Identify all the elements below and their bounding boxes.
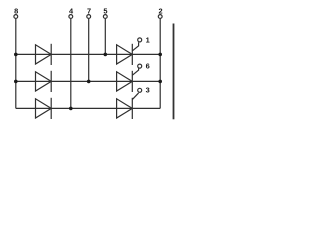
node dot: left bus / row 2 [14, 80, 18, 84]
node dot: left bus / row 1 [14, 53, 18, 57]
node dot: terminal 4 stem / row 3 [69, 107, 73, 111]
diode D3 (left, row 3) [36, 98, 52, 119]
node dot: terminal 7 stem / row 2 [87, 80, 91, 84]
wire: terminal 4 stem down to row 3 [70, 19, 72, 109]
wire: row 2 horizontal [16, 80, 160, 82]
pin 3 circle [138, 88, 142, 92]
diode D4 (right, row 1) [117, 44, 133, 65]
frame rule line (right border of drawing cell) [173, 24, 175, 120]
terminal 7 circle [87, 15, 91, 19]
wire: terminal 7 stem down to row 2 [88, 19, 90, 82]
wire: row 3 horizontal [16, 107, 160, 109]
pin 6 circle [138, 64, 142, 68]
node dot: terminal 2 stem / row 1 [158, 53, 162, 57]
pin 1 lead [132, 42, 138, 51]
terminal 2 circle [158, 15, 162, 19]
wire: terminal 5 stem down to row 1 [104, 19, 106, 55]
pin 6 lead [132, 68, 138, 75]
diode D6 (right, row 3) [117, 98, 133, 119]
wire: left DC bus from terminal 8 down to row 3 [15, 19, 17, 109]
terminal 4 circle [69, 15, 73, 19]
svg-text:1: 1 [146, 35, 150, 44]
diode D2 (left, row 2) [36, 71, 52, 92]
node dot: terminal 5 stem / row 1 [104, 53, 108, 57]
wire: row 1 horizontal [16, 53, 160, 55]
node dot: terminal 2 stem / row 2 [158, 80, 162, 84]
diode D1 (left, row 1) [36, 44, 52, 65]
wire: terminal 2 stem down to row 3 [159, 19, 161, 109]
terminal 5 circle [103, 15, 107, 19]
pin 1 circle [138, 38, 142, 42]
diode D5 (right, row 2) [117, 71, 133, 92]
pin 3 lead [132, 93, 138, 100]
svg-text:6: 6 [146, 62, 150, 71]
terminal 8 circle [14, 15, 18, 19]
svg-text:3: 3 [146, 86, 150, 95]
